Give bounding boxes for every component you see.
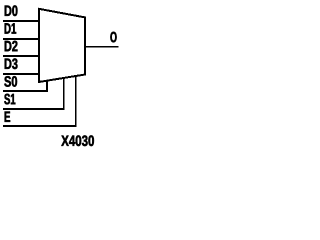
wire D0 <box>3 20 39 22</box>
pin label D2 <box>5 41 18 51</box>
pin label D0 <box>5 5 18 16</box>
wire S0 <box>3 81 47 91</box>
wire D2 <box>3 55 39 57</box>
pin label D3 <box>5 58 18 69</box>
wire D1 <box>3 38 39 40</box>
wire O (output) <box>86 46 119 48</box>
pin label E <box>5 112 10 122</box>
pin label D1 <box>5 23 16 33</box>
wire D3 <box>3 73 39 75</box>
mux body U1 (trapezoid) <box>39 9 85 82</box>
pin label S1 <box>4 94 15 105</box>
pin label O <box>110 32 116 43</box>
wire S1 <box>3 78 64 109</box>
wire E <box>3 76 76 126</box>
background <box>0 0 124 149</box>
pin label S0 <box>4 76 17 87</box>
part number X4030 <box>61 135 94 146</box>
